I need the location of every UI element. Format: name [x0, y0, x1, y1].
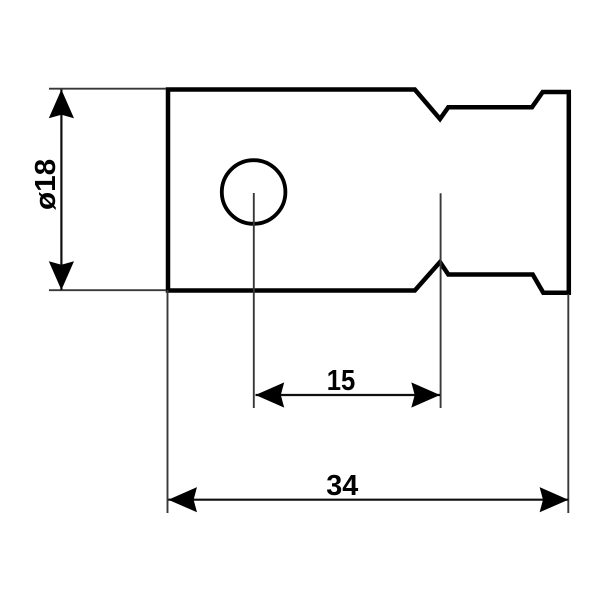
svg-text:15: 15 [327, 365, 356, 397]
arrow right 15 [411, 382, 440, 407]
dimension line 34 [168, 499, 568, 501]
hole circle [222, 160, 286, 224]
extension line from circle center [253, 193, 255, 408]
arrow up ø18 [49, 90, 74, 119]
part outline [168, 90, 569, 293]
arrow left 15 [256, 382, 285, 407]
extension line right for 34 [567, 294, 569, 513]
arrow down ø18 [49, 261, 74, 290]
arrow left 34 [168, 487, 197, 512]
extension line top for ø18 [49, 88, 166, 90]
extension line bottom for ø18 [49, 289, 166, 291]
extension line left for 34 [167, 290, 169, 513]
extension line from notch center [440, 193, 442, 408]
dimension line ø18 [60, 90, 62, 291]
dimension line 15 [256, 394, 441, 396]
svg-text:ø18: ø18 [30, 159, 62, 210]
arrow right 34 [540, 487, 569, 512]
svg-text:34: 34 [326, 470, 358, 502]
